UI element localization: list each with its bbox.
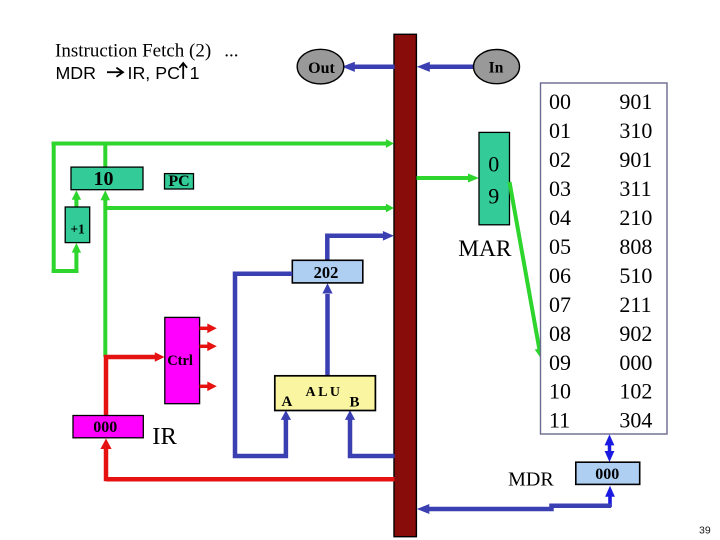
svg-text:11: 11 (549, 408, 570, 433)
wire memory to MDR double arrow (605, 434, 615, 462)
wire PC loop left vertical (52, 142, 56, 274)
svg-text:510: 510 (619, 263, 652, 288)
svg-text:0: 0 (488, 152, 499, 177)
svg-text:B: B (350, 395, 360, 411)
svg-text:Instruction Fetch (2)...: Instruction Fetch (2)... (55, 41, 238, 62)
wire bus to ALU input B (345, 410, 395, 456)
wire PC loop bottom horizontal (52, 269, 79, 273)
svg-text:ALU: ALU (305, 385, 342, 400)
svg-text:311: 311 (619, 176, 651, 201)
svg-text:310: 310 (619, 118, 652, 143)
wire ALU to 202 (322, 283, 332, 375)
svg-text:000: 000 (595, 466, 619, 483)
wire MAR to memory row 09 (510, 182, 544, 359)
svg-text:000: 000 (93, 419, 117, 436)
wire IR to Ctrl (106, 352, 165, 415)
MDR register 000 (576, 462, 640, 484)
svg-text:9: 9 (488, 184, 499, 209)
svg-text:PC: PC (168, 173, 189, 190)
svg-text:MDRIR,PC1: MDRIR,PC1 (56, 63, 200, 83)
svg-text:902: 902 (619, 321, 652, 346)
wire +1 to PC register (72, 190, 81, 207)
title arrow right (107, 68, 123, 77)
In port (474, 50, 520, 84)
MAR register (479, 132, 510, 224)
svg-text:03: 03 (549, 176, 571, 201)
wire PC to bus (105, 204, 394, 213)
Out port (297, 49, 344, 84)
svg-text:IR: IR (152, 423, 177, 450)
IR register 000 (73, 416, 143, 438)
wire In to bus (417, 62, 475, 72)
svg-text:901: 901 (619, 147, 652, 172)
data bus (394, 34, 416, 536)
wire bus to Out (342, 62, 395, 72)
svg-text:808: 808 (619, 234, 652, 259)
memory table rows (549, 89, 652, 433)
svg-text:+1: +1 (70, 222, 85, 237)
svg-text:Out: Out (308, 60, 335, 77)
PC register value 10 (71, 167, 143, 190)
wire 202 to bus (327, 231, 394, 262)
svg-text:000: 000 (619, 350, 652, 375)
Ctrl output arrow 1 (200, 324, 217, 334)
ALU (275, 376, 376, 411)
wire MDR to bus (417, 504, 611, 514)
svg-text:07: 07 (549, 292, 571, 317)
wire top into PC register (103, 144, 107, 168)
wire up into +1 (72, 243, 81, 273)
svg-text:Ctrl: Ctrl (167, 353, 193, 369)
wire red up into IR (100, 439, 111, 482)
wire MDR up arrow (605, 486, 615, 507)
202 temp register (292, 260, 363, 283)
svg-text:In: In (489, 59, 504, 76)
svg-text:08: 08 (549, 321, 571, 346)
svg-text:10: 10 (94, 168, 114, 190)
svg-text:MDR: MDR (508, 469, 554, 491)
svg-text:MAR: MAR (458, 236, 512, 262)
svg-text:210: 210 (619, 205, 652, 230)
svg-text:00: 00 (549, 89, 571, 114)
wire 202 to ALU input A (235, 274, 292, 456)
svg-text:06: 06 (549, 263, 571, 288)
svg-text:901: 901 (619, 89, 652, 114)
svg-text:10: 10 (549, 379, 571, 404)
PC label box (165, 173, 194, 190)
memory table border (541, 83, 668, 434)
svg-text:04: 04 (549, 205, 571, 230)
Ctrl output arrow 3 (200, 382, 217, 392)
svg-text:39: 39 (699, 525, 711, 537)
svg-text:A: A (282, 394, 293, 410)
svg-text:202: 202 (314, 263, 339, 282)
svg-text:09: 09 (549, 350, 571, 375)
title arrow up (179, 63, 187, 79)
wire bus bottom red to IR (106, 477, 395, 482)
Ctrl decoder (165, 317, 200, 403)
wire PC loop top horizontal to bus (52, 139, 394, 148)
svg-text:05: 05 (549, 234, 571, 259)
svg-text:01: 01 (549, 118, 571, 143)
svg-text:304: 304 (619, 408, 652, 433)
wire bus to MAR (417, 174, 480, 183)
wire from IR junction up into PC register (101, 190, 111, 357)
Ctrl output arrow 2 (200, 342, 217, 352)
+1 incrementer (65, 207, 90, 243)
svg-text:02: 02 (549, 147, 571, 172)
svg-text:211: 211 (619, 292, 651, 317)
svg-text:102: 102 (619, 379, 652, 404)
